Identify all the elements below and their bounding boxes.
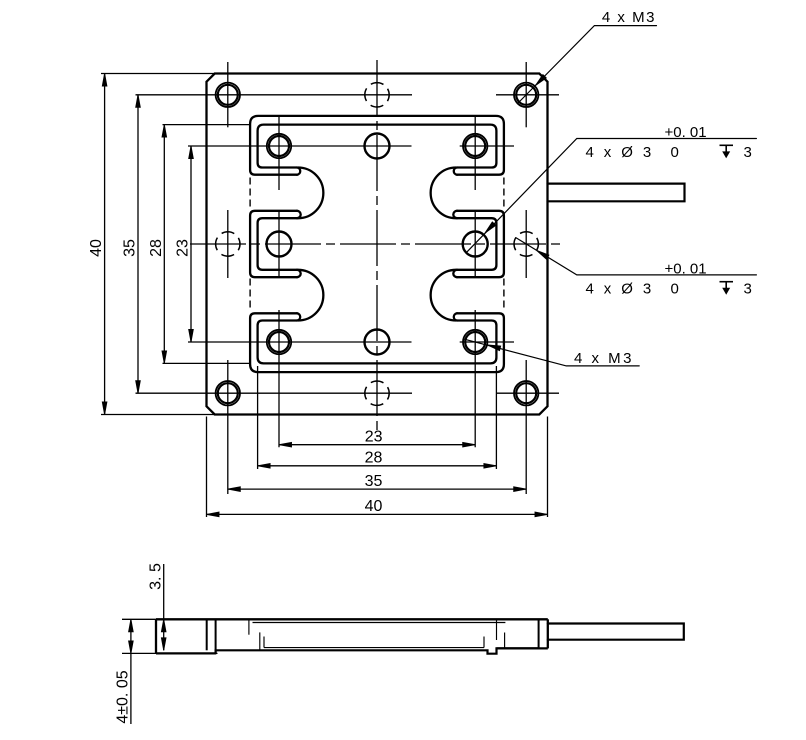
centerline column left stage holes middle [278, 212, 280, 276]
leader to mid-right hidden dowel hole [516, 238, 757, 275]
side view cable [548, 624, 684, 640]
centerline bottom-right corner hole vertical / 35 extension [525, 360, 527, 494]
side view right edge [547, 619, 549, 648]
stage inner boundary, top + upper finger slot upper lines [258, 125, 497, 168]
right E-bracket outer cut line [457, 211, 504, 277]
svg-text:4 x M3: 4 x M3 [574, 350, 634, 367]
callout text 4 x Ø3 +0.01 depth 3 (second) [586, 260, 752, 297]
side view inner edge b [259, 632, 261, 650]
side view bottom rim (4mm) left [156, 652, 216, 654]
dimension 40 (left vertical) [88, 74, 107, 415]
svg-text:28: 28 [148, 239, 165, 257]
side view left slot edge pair [207, 619, 216, 653]
dimension 28 (bottom horizontal) [258, 450, 497, 469]
dimension 35 (left vertical) [122, 95, 141, 393]
corner hole M3 top-left (thread+drill) [216, 83, 240, 107]
dimension 3.5 (side view) [148, 563, 167, 650]
centerline column right stage holes upper [474, 117, 476, 190]
leader to corner hole M3 (top callout) [518, 26, 657, 104]
left upper slot end cap [297, 168, 300, 175]
flexure cut outer boundary, top + upper finger slot lower lines [250, 116, 504, 175]
side view bottom (3.5mm) middle [216, 648, 539, 653]
hidden edge right upper (dashed) [503, 178, 505, 210]
side view right inner edge line [538, 619, 540, 648]
stage hole M3 inner top-right (thread+drill) [463, 134, 487, 158]
left lower relief bulge [298, 270, 323, 321]
left E-bracket outer cut line [250, 211, 297, 277]
hidden dowel hole Ø3 mid-left (dashed) [216, 232, 240, 256]
centerline row lower-right stage hole (right segment) [460, 341, 514, 343]
hidden edge left upper (dashed) [249, 178, 251, 210]
stage hole M3 inner bottom-left (thread+drill) [267, 330, 291, 354]
side view inner edge d [504, 633, 506, 649]
side view recess upper hidden line [253, 622, 506, 624]
leader to stage hole M3 (bottom callout) [463, 339, 639, 366]
svg-text:0: 0 [671, 280, 679, 297]
centerline mid-right hidden hole vertical [525, 210, 527, 278]
stage inner boundary, bottom + lower finger slot upper lines [258, 321, 497, 364]
svg-text:23: 23 [365, 429, 383, 446]
dimension 35 (bottom horizontal) [228, 473, 526, 492]
side view recess lower hidden line [264, 647, 484, 649]
svg-text:3: 3 [744, 280, 752, 297]
svg-text:3: 3 [744, 144, 752, 161]
stage hole M3 inner top-left (thread+drill) [267, 134, 291, 158]
centerline horizontal main axis [190, 243, 560, 245]
svg-text:4 x Ø 3: 4 x Ø 3 [586, 144, 655, 161]
centerline column left stage holes upper [278, 117, 280, 190]
svg-text:23: 23 [175, 239, 192, 257]
left E-bracket bottom slot end cap [297, 270, 301, 277]
dimension 23 (left vertical) [175, 146, 194, 342]
centerline row upper stage holes + 23 extension (left segment) [188, 145, 412, 147]
svg-text:40: 40 [88, 239, 105, 257]
extension lines for bottom 28 [258, 366, 497, 469]
dimension 28 (left vertical) [148, 125, 167, 364]
centerline vertical main axis [376, 60, 378, 437]
dowel hole Ø3 inner mid-right [463, 232, 488, 257]
centerline bottom-left corner hole vertical / 35 extension [227, 360, 229, 494]
right lower relief bulge [431, 270, 456, 321]
centerline row upper-right stage hole (right segment) [460, 145, 514, 147]
svg-text:40: 40 [365, 498, 383, 515]
svg-text:4 x M3: 4 x M3 [602, 9, 656, 26]
side view inner edge c [496, 619, 498, 640]
svg-text:+0. 01: +0. 01 [665, 124, 707, 141]
centerline row bottom corner holes + 35 extension (left segment) [136, 392, 413, 394]
svg-text:4 x Ø 3: 4 x Ø 3 [586, 280, 655, 297]
right E-bracket bottom slot end cap [453, 270, 457, 277]
right E-bracket top slot end cap [453, 211, 457, 218]
left E-bracket top slot end cap [297, 211, 301, 218]
hidden dowel hole Ø3 top-middle (dashed) [365, 83, 389, 107]
corner hole M3 top-right (thread+drill) [514, 83, 538, 107]
dowel hole Ø3 inner top-middle [365, 134, 390, 159]
hidden edge left lower (dashed) [249, 279, 251, 311]
left E-bracket inner cut line [258, 218, 297, 270]
svg-text:3. 5: 3. 5 [148, 563, 165, 590]
side view inner edge a [248, 619, 250, 634]
centerline row lower stage holes + 23 extension (left segment) [188, 341, 412, 343]
svg-text:+0. 01: +0. 01 [665, 260, 707, 277]
stage hole M3 inner bottom-right (thread+drill) [463, 330, 487, 354]
dowel hole Ø3 inner mid-left [267, 232, 292, 257]
connector tab on right edge [548, 184, 685, 202]
centerline top-left corner hole vertical [227, 62, 229, 127]
centerline mid-left hidden hole vertical [227, 210, 229, 278]
side view inner edge f [483, 637, 485, 648]
svg-text:35: 35 [122, 239, 139, 257]
corner hole M3 bottom-right (thread+drill) [514, 381, 538, 405]
side view top edge [156, 618, 548, 620]
callout text 4 x Ø3 +0.01 depth 3 (first) [586, 124, 752, 161]
right upper relief bulge [431, 168, 456, 219]
dimension 23 (bottom horizontal) [279, 429, 475, 448]
extension lines side view [122, 619, 218, 653]
plate outline (40x40, chamfered corners) [207, 74, 548, 415]
side view bottom right segment [497, 647, 548, 649]
side view inner edge e [263, 637, 265, 648]
centerline column left stage holes lower + 23 extension [278, 310, 280, 447]
dowel hole Ø3 inner bottom-middle [365, 330, 390, 355]
left upper relief bulge [298, 168, 323, 219]
right E-bracket inner cut line [457, 218, 496, 270]
centerline top-right corner hole vertical [525, 62, 527, 127]
centerline row bottom-right corner hole (right segment) [496, 392, 559, 394]
flexure cut outer boundary, bottom + lower finger slot lower lines [250, 313, 504, 372]
dimension 40 (bottom horizontal) [207, 498, 548, 517]
centerline row top corner holes + 35 extension (left segment) [136, 94, 413, 96]
extension lines for 28 height [163, 125, 251, 364]
svg-text:4±0. 05: 4±0. 05 [115, 670, 132, 723]
corner hole M3 bottom-left (thread+drill) [216, 381, 240, 405]
svg-text:35: 35 [365, 473, 383, 490]
svg-text:0: 0 [671, 144, 679, 161]
centerline column right stage holes lower + 23 extension [474, 310, 476, 447]
hidden dowel hole Ø3 bottom-middle (dashed) [365, 381, 389, 405]
svg-text:28: 28 [365, 450, 383, 467]
dimension 4±0.05 (side view) [115, 619, 134, 724]
centerline row top-right corner hole (right segment) [496, 94, 559, 96]
leader to mid-right dowel hole [467, 139, 757, 253]
hidden edge right lower (dashed) [503, 279, 505, 311]
right upper slot end cap [454, 168, 457, 175]
extension lines for bottom 40 [207, 417, 548, 518]
hidden dowel hole Ø3 mid-right (dashed) [514, 232, 538, 256]
right lower slot end cap [454, 313, 457, 320]
centerline column right stage holes middle [474, 212, 476, 276]
side view left edge [155, 619, 157, 653]
left lower slot end cap [297, 313, 300, 320]
extension lines for 40 height [101, 74, 215, 415]
